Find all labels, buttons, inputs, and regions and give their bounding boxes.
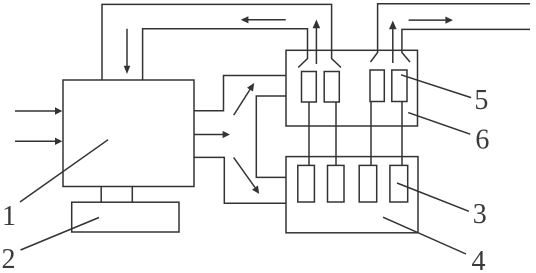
svg-text:6: 6: [475, 124, 489, 155]
svg-text:1: 1: [2, 201, 16, 232]
svg-text:5: 5: [474, 85, 488, 116]
svg-text:4: 4: [472, 246, 486, 273]
svg-text:2: 2: [2, 244, 16, 273]
svg-text:3: 3: [473, 199, 487, 230]
